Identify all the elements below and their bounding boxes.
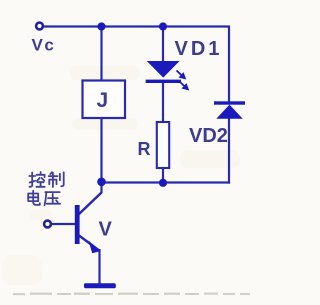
svg-text:J: J: [97, 89, 109, 112]
svg-text:V: V: [99, 219, 113, 241]
svg-text:Vc: Vc: [32, 36, 56, 55]
svg-text:R: R: [138, 139, 151, 159]
svg-text:VD1: VD1: [175, 38, 223, 60]
svg-text:VD2: VD2: [189, 125, 228, 147]
